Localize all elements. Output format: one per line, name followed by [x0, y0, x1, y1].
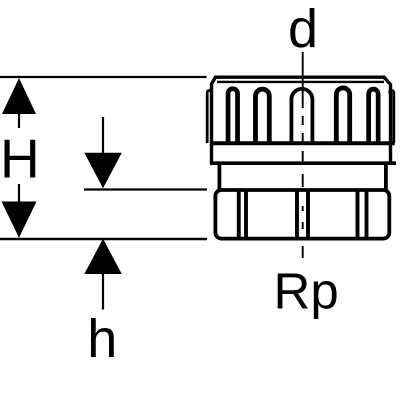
nut flat line 6 [365, 191, 369, 238]
centerline d/Rp (dash-dot axis) [302, 52, 304, 258]
dimension h arrow up [84, 239, 122, 310]
svg-text:H: H [0, 128, 40, 190]
knurl slot 4 [369, 89, 379, 143]
knurl slot 1 [228, 89, 238, 143]
nut flat line 3 [295, 191, 299, 238]
knurl slot center (wide) [291, 89, 312, 143]
extension line bottom (common base reference) [0, 238, 207, 241]
knurl slot 3 [336, 88, 349, 143]
knurled cap inner top line [217, 81, 384, 83]
knurled cap outline [212, 77, 391, 165]
nut flat line 5 [356, 191, 360, 238]
nut body (Rp socket) [215, 190, 389, 239]
knurl edge ridge right [389, 90, 393, 143]
dimension h arrow down [84, 117, 122, 188]
extension line top (height H top reference) [0, 76, 207, 78]
flange bottom line [210, 161, 396, 165]
nut flat line 1 [237, 191, 241, 238]
svg-text:h: h [87, 309, 117, 369]
knurl slot 2 [256, 89, 270, 143]
svg-text:Rp: Rp [274, 263, 339, 320]
nut flat line 4 [306, 191, 310, 238]
dimension H arrow down [2, 184, 37, 238]
dimension H arrow up [2, 78, 36, 128]
svg-text:d: d [288, 0, 318, 59]
neck right edge [384, 165, 388, 190]
knurl band bottom line [210, 141, 394, 145]
extension line middle (height h top reference) [84, 188, 207, 190]
neck left edge [217, 165, 221, 190]
knurl edge ridge left [207, 90, 211, 143]
nut flat line 2 [244, 191, 248, 238]
